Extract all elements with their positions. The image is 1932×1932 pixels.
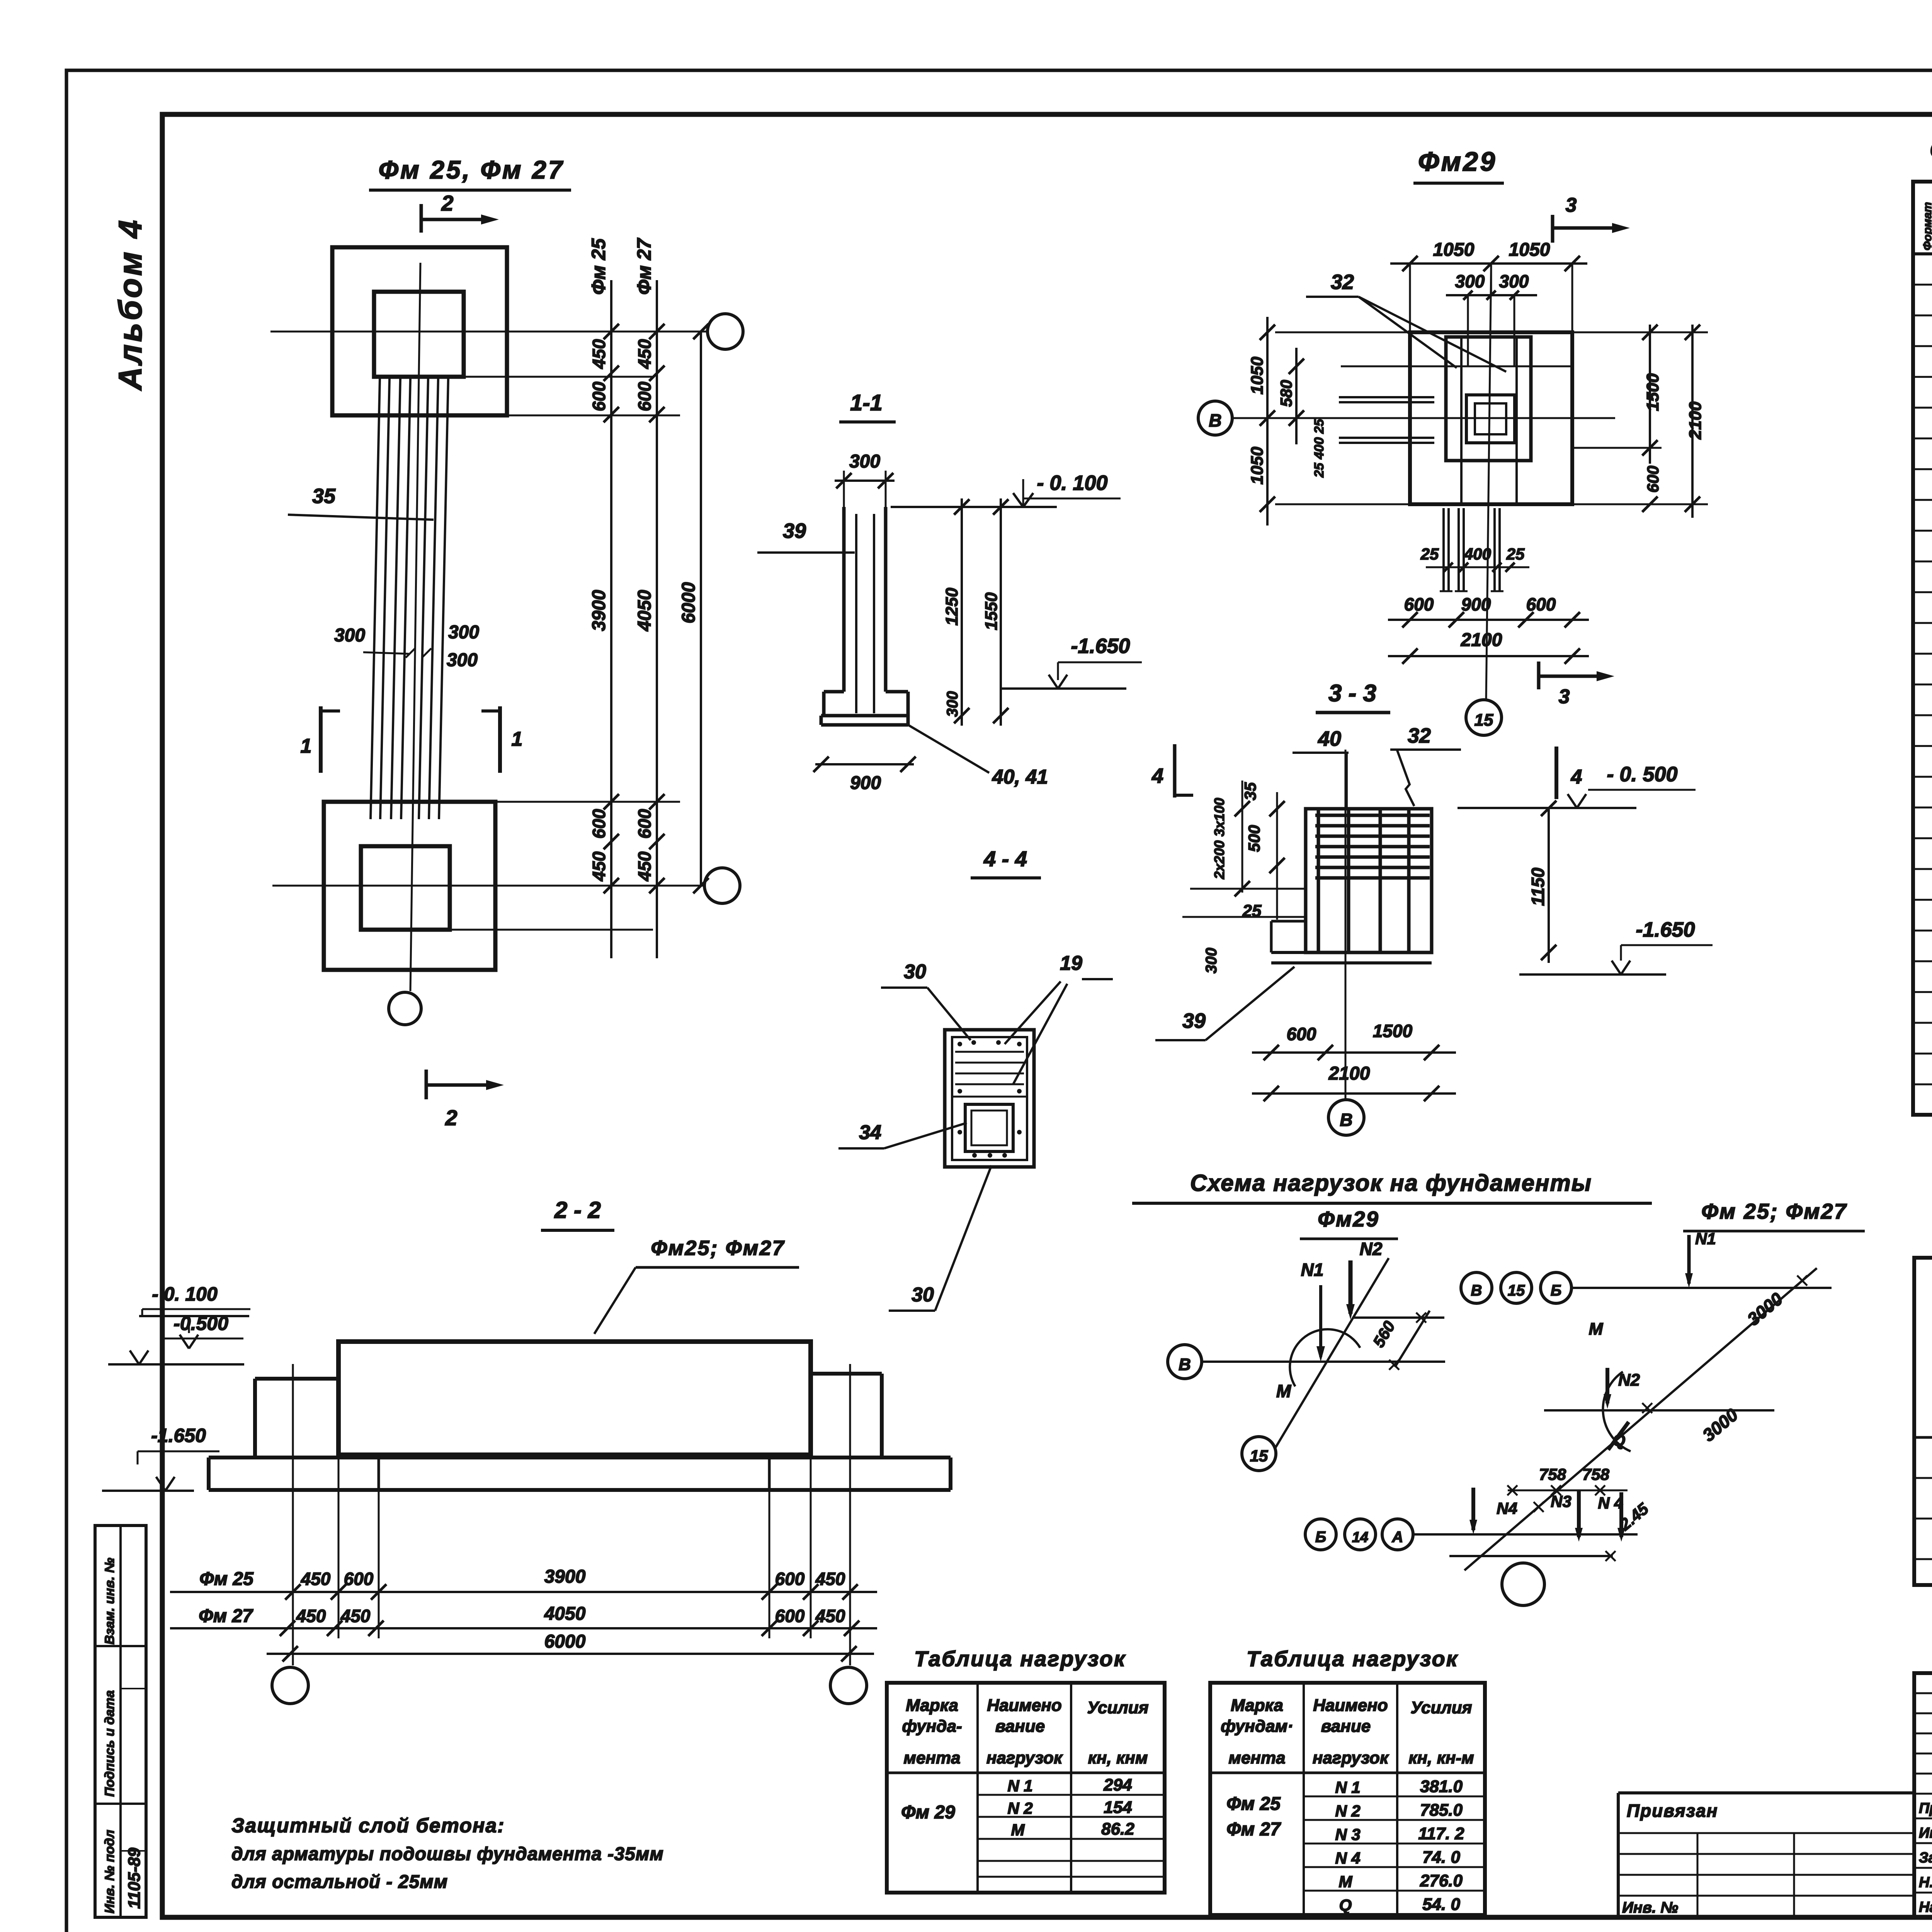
svg-text:300: 300 (944, 691, 961, 717)
svg-text:2100: 2100 (1686, 401, 1705, 440)
svg-text:нагрузок: нагрузок (1313, 1748, 1389, 1767)
svg-text:1050: 1050 (1248, 447, 1267, 485)
svg-text:N3: N3 (1551, 1492, 1571, 1510)
load table left (887, 1683, 1165, 1893)
svg-text:300: 300 (1203, 948, 1220, 974)
svg-text:450: 450 (634, 339, 655, 369)
svg-text:1: 1 (301, 735, 312, 757)
svg-text:N 1: N 1 (1007, 1777, 1032, 1795)
svg-text:N 2: N 2 (1007, 1799, 1032, 1817)
svg-text:40, 41: 40, 41 (992, 766, 1048, 788)
svg-text:450: 450 (815, 1606, 845, 1626)
svg-text:30: 30 (912, 1284, 934, 1306)
section mark 2 top (420, 204, 423, 233)
svg-text:6000: 6000 (544, 1631, 586, 1652)
svg-text:1150: 1150 (1528, 867, 1548, 906)
axis circles of 2-2 (272, 1667, 308, 1704)
svg-text:кн, кн-м: кн, кн-м (1408, 1748, 1474, 1767)
axis circle 15 (1466, 700, 1502, 735)
slab joints (378, 1455, 380, 1490)
section 2-2 left step (255, 1377, 338, 1381)
section mark 2 bottom (425, 1070, 428, 1099)
svg-text:600: 600 (775, 1606, 805, 1626)
vertical dims 1250 1550 (961, 498, 963, 726)
svg-text:450: 450 (340, 1606, 371, 1626)
svg-text:300: 300 (849, 451, 880, 472)
svg-text:вание: вание (995, 1717, 1045, 1736)
svg-text:600: 600 (1287, 1024, 1316, 1044)
svg-text:Фм29: Фм29 (1318, 1207, 1379, 1231)
plan centerlines (270, 331, 706, 333)
svg-text:1500: 1500 (1643, 373, 1662, 411)
svg-text:для арматуры подошвы фундам: для арматуры подошвы фундамента -35мм (231, 1844, 664, 1864)
svg-text:для остальной - 25мм: для остальной - 25мм (231, 1872, 448, 1892)
dim 900 bottom of 1-1 (815, 763, 914, 765)
plan Fm25 top pad inner (374, 292, 464, 377)
svg-text:В: В (1471, 1282, 1482, 1299)
left dims of Fm29 (1266, 317, 1269, 526)
svg-text:Зав. груп: Зав. груп (1919, 1850, 1932, 1866)
svg-text:450: 450 (301, 1569, 331, 1589)
svg-text:4: 4 (1571, 766, 1582, 788)
plan Fm29 left dowels (1339, 396, 1434, 398)
svg-text:Нач. отд: Нач. отд (1919, 1899, 1932, 1915)
svg-text:758: 758 (1539, 1465, 1566, 1483)
detail 4-4 outer box (945, 1030, 1034, 1167)
svg-text:N 4: N 4 (1598, 1494, 1623, 1512)
svg-text:N4: N4 (1497, 1499, 1517, 1517)
svg-text:294: 294 (1103, 1776, 1132, 1794)
detail 4-4 rebar dots (957, 1042, 962, 1046)
svg-text:- 0. 500: - 0. 500 (1607, 763, 1677, 786)
svg-text:1050: 1050 (1509, 240, 1550, 260)
svg-text:Фм25; Фм27: Фм25; Фм27 (651, 1236, 785, 1260)
svg-text:Фм 25: Фм 25 (199, 1569, 254, 1589)
svg-text:Альбом 4: Альбом 4 (112, 218, 148, 391)
svg-text:Проверил: Проверил (1919, 1800, 1932, 1816)
svg-text:25: 25 (1420, 545, 1439, 563)
plan Fm29 pedestal outline (1446, 337, 1531, 461)
svg-text:300: 300 (1455, 271, 1485, 291)
left margin stamp strip (95, 1526, 146, 1917)
svg-text:Фм 25: Фм 25 (1226, 1794, 1281, 1814)
section 2-2 right step (811, 1372, 882, 1376)
svg-text:1050: 1050 (1248, 357, 1267, 395)
svg-text:25: 25 (1506, 545, 1525, 563)
svg-text:15: 15 (1475, 711, 1493, 730)
axis circle V (1198, 401, 1232, 435)
svg-text:N2: N2 (1618, 1371, 1640, 1389)
svg-text:600: 600 (589, 381, 609, 411)
svg-text:Усилия: Усилия (1087, 1698, 1148, 1717)
svg-text:300: 300 (1499, 271, 1529, 291)
svg-text:Фм 27: Фм 27 (1226, 1819, 1281, 1840)
svg-text:3900: 3900 (544, 1566, 586, 1587)
svg-text:4050: 4050 (544, 1604, 586, 1624)
plan Fm29 vertical bars (1460, 337, 1463, 504)
svg-text:Н. контр.: Н. контр. (1919, 1874, 1932, 1891)
svg-text:Таблица нагрузок: Таблица нагрузок (914, 1646, 1126, 1671)
svg-text:1050: 1050 (1433, 240, 1475, 260)
svg-text:86.2: 86.2 (1101, 1820, 1134, 1838)
svg-text:25 400 25: 25 400 25 (1312, 418, 1327, 478)
svg-text:N 3: N 3 (1335, 1825, 1360, 1844)
right dimension lines of plan (610, 280, 612, 958)
svg-text:Марка: Марка (1231, 1696, 1283, 1715)
svg-text:В: В (1209, 410, 1221, 430)
plan Fm29 centerlines (1233, 417, 1615, 419)
main diagonal Fm25 (1464, 1268, 1817, 1570)
section mark 3 bottom (1537, 662, 1541, 689)
svg-text:600: 600 (775, 1569, 805, 1589)
svg-text:N 1: N 1 (1335, 1778, 1360, 1796)
svg-text:900: 900 (850, 773, 881, 793)
svg-text:Марка: Марка (906, 1696, 958, 1715)
svg-text:Фм 25; Фм27: Фм 25; Фм27 (1701, 1199, 1847, 1223)
svg-text:600: 600 (1644, 466, 1662, 493)
section mark 4 right with elevation -0.500 (1554, 747, 1558, 799)
section 1-1 column walls (842, 507, 846, 692)
svg-text:В: В (1179, 1355, 1191, 1374)
svg-text:2100: 2100 (1461, 630, 1502, 650)
section mark 3 top (1551, 215, 1554, 243)
svg-text:Инв. № подл: Инв. № подл (102, 1830, 117, 1913)
svg-text:300: 300 (448, 622, 479, 643)
svg-text:450: 450 (815, 1569, 845, 1589)
load diagram Fm29 axis V (1168, 1345, 1202, 1379)
svg-text:Фм29: Фм29 (1418, 146, 1497, 177)
svg-text:Привязан: Привязан (1627, 1801, 1718, 1821)
lower horizontal line with axes B 14 A (1305, 1519, 1336, 1550)
svg-text:900: 900 (1461, 594, 1491, 614)
svg-text:30: 30 (904, 961, 926, 983)
svg-text:600: 600 (589, 809, 609, 838)
svg-text:-1.650: -1.650 (151, 1425, 206, 1446)
svg-text:нагрузок: нагрузок (986, 1748, 1063, 1767)
section 3-3 top mesh (1315, 814, 1430, 817)
plan Fm29 footing outline (1410, 332, 1572, 504)
section 3-3 footing body (1306, 809, 1432, 952)
svg-text:фунда-: фунда- (902, 1717, 962, 1736)
svg-text:2х200 3х100: 2х200 3х100 (1211, 798, 1227, 879)
load table right (1210, 1683, 1485, 1915)
svg-text:-0.500: -0.500 (173, 1313, 228, 1334)
svg-text:Таблица нагрузок: Таблица нагрузок (1247, 1646, 1458, 1671)
svg-text:Усилия: Усилия (1410, 1698, 1472, 1717)
svg-text:4 - 4: 4 - 4 (983, 847, 1027, 871)
axis circle V of 3-3 (1328, 1100, 1364, 1135)
svg-text:М: М (1589, 1320, 1604, 1338)
svg-text:600: 600 (1404, 594, 1434, 614)
svg-text:381.0: 381.0 (1420, 1777, 1463, 1796)
svg-text:4: 4 (1151, 764, 1163, 787)
svg-text:Б: Б (1315, 1529, 1326, 1546)
svg-text:6000: 6000 (679, 582, 699, 623)
svg-text:Фм 27: Фм 27 (633, 238, 655, 295)
svg-text:Q: Q (1339, 1896, 1352, 1915)
svg-text:В: В (1340, 1110, 1352, 1130)
svg-text:Фм 29: Фм 29 (901, 1802, 955, 1823)
svg-text:Фм 27: Фм 27 (199, 1606, 253, 1626)
svg-text:Инв. №: Инв. № (1622, 1899, 1678, 1916)
detail 4-4 stirrup lines (955, 1051, 1024, 1053)
specification row grid (1913, 284, 1932, 286)
svg-text:15: 15 (1250, 1447, 1268, 1465)
svg-text:А: А (1392, 1529, 1403, 1546)
svg-text:32: 32 (1331, 270, 1354, 294)
svg-text:2: 2 (445, 1105, 457, 1130)
svg-text:Защитный слой бетона:: Защитный слой бетона: (231, 1815, 505, 1837)
svg-text:32: 32 (1408, 724, 1431, 747)
load diagram Fm25 axis circles (1461, 1272, 1492, 1303)
svg-text:1500: 1500 (1373, 1021, 1413, 1041)
svg-text:19: 19 (1060, 952, 1082, 975)
svg-text:N2: N2 (1360, 1239, 1383, 1259)
middle horizontal line (1544, 1409, 1774, 1412)
extension lines to dims (507, 415, 680, 417)
right dim 1150 (1548, 808, 1550, 963)
svg-text:3: 3 (1559, 685, 1570, 708)
svg-text:М: М (1011, 1821, 1025, 1839)
svg-text:мента: мента (1228, 1748, 1285, 1767)
plan Fm25 bottom pad inner (361, 846, 450, 930)
plan Fm25 column strip bars (371, 379, 380, 819)
svg-text:1550: 1550 (982, 592, 1001, 630)
svg-text:Б: Б (1551, 1282, 1561, 1299)
moment M Fm29 (1290, 1329, 1360, 1386)
svg-text:М: М (1276, 1381, 1292, 1401)
svg-text:Спецификация монолитных фунд: Спецификация монолитных фундаментов Фм 2… (1930, 137, 1932, 163)
svg-text:2 - 2: 2 - 2 (554, 1197, 601, 1223)
plan Fm29 bottom dowels (1442, 508, 1445, 591)
svg-text:15: 15 (1508, 1282, 1525, 1299)
dim 560 Fm29 (1395, 1311, 1430, 1367)
privyazan block (1618, 1791, 1914, 1794)
plan Fm25 bottom pad outer (324, 802, 495, 970)
svg-text:39: 39 (1182, 1009, 1206, 1032)
svg-text:154: 154 (1104, 1798, 1132, 1817)
section 2-2 base slab (209, 1456, 951, 1459)
svg-text:450: 450 (589, 851, 609, 881)
svg-text:3 - 3: 3 - 3 (1328, 680, 1376, 707)
svg-text:Наимено: Наимено (1313, 1696, 1388, 1715)
svg-text:276.0: 276.0 (1420, 1871, 1463, 1890)
svg-text:400: 400 (1464, 545, 1491, 563)
svg-text:N1: N1 (1301, 1260, 1324, 1280)
svg-text:фундам·: фундам· (1221, 1717, 1293, 1736)
plan Fm25 top pad outer (332, 247, 507, 415)
svg-text:35: 35 (1241, 782, 1259, 800)
specification table frame (1913, 182, 1932, 1115)
svg-text:1: 1 (512, 728, 523, 750)
svg-text:54. 0: 54. 0 (1422, 1895, 1460, 1914)
plan Fm29 column box (1466, 395, 1515, 443)
svg-text:кн, кнм: кн, кнм (1088, 1748, 1148, 1767)
section 3-3 vertical bars (1317, 810, 1320, 951)
svg-text:758: 758 (1582, 1465, 1610, 1483)
section 2-2 beam body (338, 1342, 811, 1455)
svg-text:- 0. 100: - 0. 100 (152, 1283, 218, 1305)
svg-text:600: 600 (344, 1569, 374, 1589)
section 3-3 base mat (1271, 920, 1306, 923)
title block signature table (1914, 1673, 1932, 1917)
svg-text:300: 300 (447, 650, 478, 670)
plan Fm29 horizontal bar line (1341, 366, 1573, 367)
bottom open circle (1502, 1563, 1544, 1605)
svg-text:74. 0: 74. 0 (1422, 1848, 1460, 1867)
svg-text:450: 450 (296, 1606, 326, 1626)
svg-text:300: 300 (334, 625, 365, 646)
load diagram Fm29 axis 15 (1242, 1437, 1276, 1471)
right dims of Fm29 (1649, 325, 1651, 464)
svg-text:600: 600 (634, 381, 655, 411)
svg-text:4050: 4050 (634, 590, 655, 631)
svg-text:2: 2 (441, 191, 453, 215)
svg-text:- 0. 100: - 0. 100 (1037, 471, 1107, 495)
svg-text:Взам. инв. №: Взам. инв. № (102, 1558, 117, 1645)
svg-text:вание: вание (1321, 1717, 1371, 1736)
svg-text:1-1: 1-1 (850, 390, 883, 415)
svg-text:Наимено: Наимено (987, 1696, 1062, 1715)
svg-text:14: 14 (1352, 1529, 1368, 1546)
svg-text:-1.650: -1.650 (1636, 918, 1695, 941)
svg-text:3: 3 (1566, 194, 1577, 216)
svg-text:мента: мента (903, 1748, 960, 1767)
svg-text:1250: 1250 (942, 588, 961, 626)
detail 4-4 inner column box (965, 1104, 1013, 1151)
svg-text:N 2: N 2 (1335, 1802, 1360, 1820)
steel table frame (1914, 1258, 1932, 1585)
axis extension lines (292, 1364, 294, 1665)
svg-text:600: 600 (1526, 594, 1556, 614)
svg-text:Формат: Формат (1921, 202, 1932, 250)
svg-text:450: 450 (589, 339, 609, 369)
svg-text:Фм 25, Фм 27: Фм 25, Фм 27 (379, 155, 565, 184)
section 1-1 footing (824, 690, 844, 694)
load diagram Fm29 diagonal axis (1275, 1258, 1389, 1448)
svg-text:450: 450 (634, 851, 655, 881)
svg-text:39: 39 (783, 519, 806, 543)
axis circles (707, 314, 743, 349)
svg-text:600: 600 (634, 809, 655, 838)
svg-text:Инж. Iкат: Инж. Iкат (1919, 1825, 1932, 1841)
svg-text:1105-89: 1105-89 (125, 1847, 144, 1909)
svg-text:Фм 25: Фм 25 (588, 238, 609, 295)
svg-text:785.0: 785.0 (1420, 1801, 1463, 1820)
svg-text:Схема нагрузок на фундаменты: Схема нагрузок на фундаменты (1190, 1170, 1592, 1196)
svg-text:35: 35 (312, 485, 336, 508)
svg-text:580: 580 (1277, 380, 1295, 407)
svg-text:2100: 2100 (1328, 1063, 1370, 1084)
svg-text:М: М (1339, 1872, 1353, 1891)
svg-text:117. 2: 117. 2 (1418, 1824, 1464, 1843)
section marks 1-1 on plan (319, 706, 323, 773)
svg-text:-1.650: -1.650 (1071, 634, 1130, 658)
svg-text:40: 40 (1318, 727, 1341, 750)
svg-text:500: 500 (1245, 825, 1263, 852)
svg-text:Подпись и дата: Подпись и дата (102, 1690, 117, 1797)
svg-text:3900: 3900 (589, 590, 609, 631)
svg-text:N 4: N 4 (1335, 1849, 1360, 1867)
section 1-1 rebar (855, 514, 857, 713)
svg-text:34: 34 (859, 1121, 881, 1144)
svg-text:N1: N1 (1695, 1230, 1716, 1248)
